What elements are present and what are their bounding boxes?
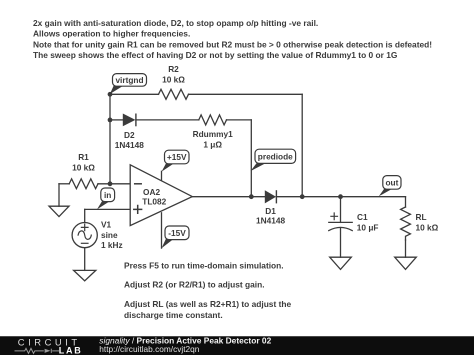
wire R1 to opamp inverting input — [98, 183, 130, 185]
wire C1 top stub — [340, 197, 342, 223]
svg-text:virtgnd: virtgnd — [115, 75, 143, 85]
node flag out — [379, 176, 401, 197]
footer logo diode glyph — [45, 349, 51, 353]
wire RL bottom stub — [405, 240, 407, 257]
svg-text:1 μΩ: 1 μΩ — [203, 139, 222, 149]
wire opamp output — [192, 196, 264, 198]
svg-text:Press F5 to run time-domain si: Press F5 to run time-domain simulation. — [124, 260, 284, 270]
svg-text:in: in — [104, 190, 111, 200]
svg-text:D2: D2 — [124, 130, 135, 140]
annotation text bottom — [124, 260, 291, 320]
op-amp OA2 triangle — [130, 165, 192, 226]
svg-text:-15V: -15V — [168, 228, 186, 238]
svg-text:1N4148: 1N4148 — [256, 215, 285, 225]
ground V1 — [74, 270, 96, 280]
power flag +15V — [162, 150, 189, 171]
wire R1 left — [59, 183, 69, 185]
junction node C1 top — [338, 194, 343, 199]
wire virtgnd vertical — [109, 94, 111, 184]
svg-text:out: out — [385, 178, 398, 188]
svg-text:LAB: LAB — [59, 345, 83, 355]
svg-text:http://circuitlab.com/cvjt2qn: http://circuitlab.com/cvjt2qn — [99, 344, 199, 354]
ground RL — [395, 257, 417, 269]
svg-text:+15V: +15V — [167, 152, 187, 162]
svg-text:Allows operation to higher fre: Allows operation to higher frequencies. — [33, 29, 190, 39]
voltage source V1 circle — [72, 223, 97, 248]
V1 sine symbol — [78, 231, 91, 240]
svg-text:The sweep shows the effect of: The sweep shows the effect of having D2 … — [33, 50, 397, 60]
junction node opamp output / prediode — [249, 194, 254, 199]
wire D2 row left — [110, 119, 123, 121]
svg-text:Note that for unity gain R1 ca: Note that for unity gain R1 can be remov… — [33, 39, 432, 49]
svg-text:2x gain with anti-saturation d: 2x gain with anti-saturation diode, D2, … — [33, 18, 318, 28]
capacitor C1 plates — [329, 221, 352, 223]
svg-text:10 kΩ: 10 kΩ — [162, 74, 185, 84]
resistor Rdummy1 — [199, 115, 227, 125]
svg-text:discharge time constant.: discharge time constant. — [124, 310, 223, 320]
resistor R1 — [69, 179, 98, 189]
power flag -15V — [162, 226, 190, 248]
svg-text:sine: sine — [101, 230, 118, 240]
wire V1 bottom stub — [84, 248, 86, 271]
svg-text:RL: RL — [416, 212, 427, 222]
svg-text:Adjust RL (as well as R2+R1) t: Adjust RL (as well as R2+R1) to adjust t… — [124, 299, 291, 309]
resistor RL — [401, 207, 411, 240]
node flag virtgnd — [110, 74, 147, 94]
svg-text:10 kΩ: 10 kΩ — [72, 163, 95, 173]
resistor R2 — [159, 89, 189, 99]
node flag prediode — [251, 149, 296, 171]
wire noninverting input — [85, 208, 131, 210]
wire feedback vertical — [301, 94, 303, 196]
V1 plus sign — [81, 224, 88, 231]
op-amp minus input symbol — [135, 183, 142, 185]
wire D1 to out — [276, 196, 405, 198]
V1 minus sign — [81, 242, 88, 244]
svg-text:C1: C1 — [357, 212, 368, 222]
junction node feedback / out — [300, 194, 305, 199]
svg-text:R2: R2 — [168, 64, 179, 74]
wire D2 to Rdummy1 — [136, 119, 199, 121]
wire R2 to feedback corner — [189, 93, 303, 95]
svg-text:R1: R1 — [78, 152, 89, 162]
junction node inverting input — [108, 181, 113, 186]
ground C1 — [330, 257, 352, 269]
diode D2 — [123, 114, 136, 127]
wire prediode vertical — [250, 120, 252, 197]
diode D1 — [265, 190, 276, 203]
svg-text:10 kΩ: 10 kΩ — [416, 222, 439, 232]
wire -15V stub — [161, 213, 163, 248]
capacitor C1 plus sign — [331, 213, 338, 220]
annotation text top — [33, 18, 432, 60]
svg-text:TL082: TL082 — [142, 197, 166, 207]
svg-text:Rdummy1: Rdummy1 — [193, 129, 233, 139]
wire +15V stub — [161, 171, 163, 180]
wire C1 bottom stub — [340, 229, 342, 258]
wire V1 top stub — [84, 209, 86, 222]
svg-text:1 kHz: 1 kHz — [101, 240, 123, 250]
svg-text:1N4148: 1N4148 — [115, 140, 144, 150]
wire RL top stub — [405, 197, 407, 207]
svg-text:V1: V1 — [101, 220, 112, 230]
ground R1 — [49, 206, 69, 216]
svg-text:Adjust R2 (or R2/R1) to adjust: Adjust R2 (or R2/R1) to adjust gain. — [124, 280, 265, 290]
svg-text:10 μF: 10 μF — [357, 222, 379, 232]
junction node D2 row — [108, 118, 113, 123]
footer logo schematic squiggle — [15, 348, 60, 353]
wire R1 ground stub — [58, 184, 60, 206]
node flag in — [97, 188, 115, 209]
wire Rdummy1 to corner — [227, 119, 252, 121]
svg-text:OA2: OA2 — [143, 187, 160, 197]
footer bar — [0, 335, 474, 355]
junction node virtgnd/R2 — [108, 92, 113, 97]
op-amp plus input symbol — [134, 206, 142, 214]
wire top left virtgnd node to R2 — [110, 93, 159, 95]
svg-text:prediode: prediode — [258, 152, 293, 162]
